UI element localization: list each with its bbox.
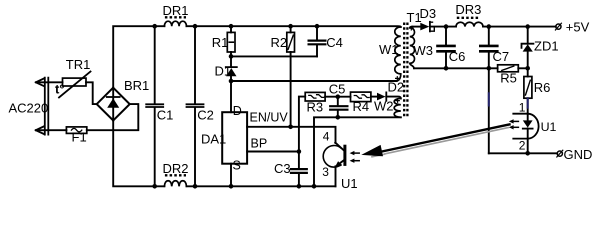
resistor R5 power mark <box>502 66 514 70</box>
svg-text:BR1: BR1 <box>124 78 149 93</box>
node D1 drain <box>229 79 234 84</box>
IC DA1 body <box>222 112 247 164</box>
node C1 top <box>152 24 157 29</box>
capacitor C7 plates <box>480 46 497 51</box>
svg-text:3: 3 <box>322 165 329 179</box>
diode D1 bar <box>226 66 237 68</box>
LED light arrow upper <box>513 120 519 122</box>
diode D2 bar <box>385 92 387 100</box>
svg-text:D: D <box>233 104 242 118</box>
node C7 top <box>487 24 492 29</box>
resistor R2 top lead <box>290 26 292 32</box>
svg-text:DR1: DR1 <box>163 3 189 18</box>
wire secondary return W3 to C7 <box>414 67 489 69</box>
resistor R5 left lead <box>489 67 498 69</box>
wire drain line D1 to W1 <box>231 80 396 82</box>
resistor R6 bottom lead <box>527 98 529 114</box>
svg-text:R2: R2 <box>271 35 288 50</box>
capacitor C1 bottom lead <box>154 108 156 186</box>
LED anode lead <box>527 114 529 121</box>
node C5 top <box>336 94 341 99</box>
optocoupler U1 LED housing top bar <box>513 113 527 115</box>
wire R3 to R4 <box>325 96 350 98</box>
coupling big arrow line <box>379 124 510 152</box>
svg-text:C1: C1 <box>157 107 174 122</box>
wire F1 to bridge right <box>87 104 139 130</box>
opto transistor base bar <box>343 146 346 164</box>
node C6 bottom <box>444 66 449 71</box>
wire S pin lead <box>230 164 232 187</box>
transformer T1 core dotted <box>404 23 407 119</box>
capacitor C3 top lead <box>298 152 300 168</box>
wire R3 left lead down to BP <box>299 97 305 152</box>
svg-text:DR2: DR2 <box>163 161 189 176</box>
wire D2 to W2 <box>386 97 401 99</box>
node C5 bottom <box>336 115 341 120</box>
opto light arrow lower <box>354 160 360 162</box>
resistor R1 top lead <box>230 26 232 32</box>
capacitor C4 bottom lead <box>316 46 318 57</box>
capacitor C3 bottom lead <box>298 174 300 186</box>
capacitor C4 plates <box>309 41 326 45</box>
node return rail <box>312 184 317 189</box>
LED triangle <box>523 120 533 127</box>
node S rail <box>229 184 234 189</box>
svg-text:D3: D3 <box>420 6 437 21</box>
node BP C3 <box>297 149 302 154</box>
transformer T1 winding W1 <box>395 27 401 81</box>
opto transistor circle <box>323 145 341 167</box>
svg-text:BP: BP <box>251 137 268 151</box>
node R2 top <box>288 24 293 29</box>
diode D3 schottky hooks <box>430 22 434 31</box>
diode D1 triangle <box>226 68 236 76</box>
resistor R3 power marks <box>309 95 324 98</box>
svg-text:GND: GND <box>564 147 593 162</box>
resistor R1 power mark <box>229 41 233 43</box>
terminal GND circle <box>557 151 562 156</box>
node C3 rail <box>297 184 302 189</box>
resistor R5 body <box>498 65 519 72</box>
node R2 enuv <box>288 125 293 130</box>
node LED gnd <box>525 151 530 156</box>
svg-text:U1: U1 <box>341 176 358 191</box>
winding W2 phase mark <box>396 99 399 102</box>
diode D1 bottom lead <box>230 76 232 81</box>
svg-text:C4: C4 <box>326 35 343 50</box>
coupling arrow shadow <box>372 128 508 157</box>
svg-text:DA1: DA1 <box>201 132 226 147</box>
wire bridge minus to bottom rail <box>113 121 164 187</box>
winding W2 humps <box>394 98 401 117</box>
opto transistor emitter lead <box>335 166 337 186</box>
thermistor TR1 body <box>63 78 87 86</box>
resistor R6 power mark <box>526 80 531 95</box>
resistor R5 right lead <box>518 67 527 69</box>
wire top rail to transformer <box>187 25 401 28</box>
wire AC bottom line <box>38 129 67 131</box>
resistor R2 bottom lead <box>290 52 292 127</box>
optocoupler U1 LED housing bottom bar <box>513 138 527 140</box>
svg-text:C7: C7 <box>493 49 510 64</box>
node C4 top <box>315 24 320 29</box>
wire W3 to D3 <box>413 26 421 28</box>
diode D3 bar <box>429 22 431 32</box>
svg-text:DR3: DR3 <box>455 2 481 17</box>
capacitor C1 top lead <box>154 26 156 103</box>
resistor R2 power mark <box>288 35 293 49</box>
terminal +5V slash <box>555 23 561 30</box>
svg-text:D1: D1 <box>215 64 232 79</box>
zener ZD1 top lead <box>527 27 529 44</box>
wire DR3 to +5V terminal <box>483 26 556 28</box>
wire C7 vertical to GND corner <box>488 27 490 154</box>
svg-text:EN/UV: EN/UV <box>250 111 289 125</box>
transformer T1 winding W3 <box>410 27 415 69</box>
svg-text:t°: t° <box>55 82 65 97</box>
svg-text:2: 2 <box>519 139 526 153</box>
node R1 clamp <box>229 54 234 59</box>
wire AC top line <box>38 81 63 83</box>
svg-text:S: S <box>233 159 241 173</box>
inductor DR1 core dotted <box>165 16 186 18</box>
terminal +5V circle <box>556 24 561 29</box>
LED cathode lead to GND <box>527 129 529 154</box>
connector plug double line <box>45 78 49 135</box>
capacitor C5 bottom lead <box>337 111 339 118</box>
svg-text:R3: R3 <box>307 100 324 115</box>
wire R4 to D2 <box>371 96 377 98</box>
resistor R2 body <box>287 32 295 52</box>
opto transistor emitter diagonal <box>338 160 344 165</box>
svg-text:ZD1: ZD1 <box>534 39 559 54</box>
inductor DR3 core dotted <box>457 17 480 19</box>
node ZD1 top <box>525 24 530 29</box>
capacitor C2 top lead <box>194 26 196 103</box>
svg-text:C6: C6 <box>449 49 466 64</box>
blue segment on R6 lead <box>527 98 529 107</box>
capacitor C5 top lead <box>337 97 339 105</box>
svg-text:W2: W2 <box>374 99 394 114</box>
wire bottom rail <box>187 185 336 187</box>
thermistor TR1 diagonal <box>59 72 91 98</box>
wire D pin lead <box>230 81 232 112</box>
svg-text:R5: R5 <box>500 71 517 86</box>
optocoupler U1 LED housing arc <box>528 114 539 139</box>
fuse F1 body <box>66 127 86 133</box>
AC input arrow top <box>36 79 44 87</box>
bridge BR1 inner diode <box>112 88 114 121</box>
terminal GND slash <box>557 150 563 157</box>
svg-text:+5V: +5V <box>566 19 590 34</box>
zener ZD1 bottom lead <box>527 52 529 69</box>
fuse F1 wave <box>71 128 81 131</box>
svg-text:AC220: AC220 <box>9 101 49 116</box>
node R1 top <box>229 24 234 29</box>
inductor DR2 core dotted <box>165 174 186 176</box>
capacitor C4 top lead <box>316 26 318 39</box>
capacitor C3 plates <box>291 169 307 173</box>
capacitor C1 plates <box>146 104 163 107</box>
capacitor C2 bottom lead <box>194 108 196 186</box>
coupling big arrow head <box>361 145 383 156</box>
svg-text:C5: C5 <box>329 82 346 97</box>
diode D2 triangle <box>377 93 386 101</box>
node C1 bottom <box>152 184 157 189</box>
opto transistor collector diagonal <box>335 143 344 151</box>
bridge BR1 diode bar <box>107 96 120 98</box>
diode D1 top lead <box>230 56 232 67</box>
svg-text:R1: R1 <box>212 35 229 50</box>
resistor R1 bottom lead <box>230 52 232 56</box>
blue segment on C7 ground wire <box>488 93 490 105</box>
svg-text:U1: U1 <box>541 120 557 134</box>
inductor DR1 humps <box>164 21 186 26</box>
svg-text:R6: R6 <box>534 80 551 95</box>
svg-text:TR1: TR1 <box>66 57 91 72</box>
opto light arrow upper <box>354 152 360 154</box>
svg-text:4: 4 <box>323 129 330 143</box>
bridge BR1 diode triangle <box>107 98 119 107</box>
svg-text:W1: W1 <box>379 42 399 57</box>
opto transistor emitter arrow <box>335 161 342 167</box>
node C6 top <box>444 24 449 29</box>
inductor DR2 humps <box>164 181 186 187</box>
svg-text:C3: C3 <box>274 161 291 176</box>
svg-text:1: 1 <box>519 101 526 115</box>
winding W1 phase mark <box>396 77 399 80</box>
capacitor C5 plates <box>330 106 347 110</box>
winding W3 phase mark <box>410 27 413 30</box>
svg-text:R4: R4 <box>353 99 370 114</box>
resistor R6 body <box>524 77 532 99</box>
node C2 top <box>193 24 198 29</box>
resistor R4 body <box>351 92 371 102</box>
capacitor C6 plates <box>438 46 455 51</box>
node C7 return <box>487 66 492 71</box>
wire bridge plus to top rail <box>113 26 164 87</box>
zener ZD1 triangle <box>523 44 533 51</box>
capacitor C6 top lead <box>445 27 447 45</box>
svg-text:F1: F1 <box>72 130 87 145</box>
wire BP line <box>247 151 299 153</box>
svg-text:C2: C2 <box>197 107 214 122</box>
inductor DR3 humps <box>456 22 483 26</box>
LED cathode bar <box>523 128 533 130</box>
svg-text:D2: D2 <box>388 80 405 95</box>
diode D3 triangle <box>420 23 429 31</box>
svg-text:W3: W3 <box>414 43 434 58</box>
resistor R6 top lead <box>527 68 529 76</box>
wire W2 bottom return line <box>314 117 401 186</box>
wire EN/UV line to opto collector <box>247 127 335 143</box>
resistor R3 body <box>305 92 325 101</box>
resistor R4 power marks <box>354 95 369 98</box>
bridge rectifier BR1 diamond <box>97 88 130 121</box>
wire GND line <box>489 152 557 154</box>
zener ZD1 bar and hook <box>522 44 534 48</box>
wire D3 to DR3 <box>430 26 456 28</box>
capacitor C6 bottom lead <box>445 53 447 69</box>
wire TR1 to bridge left <box>86 82 97 104</box>
node C2 bottom <box>193 184 198 189</box>
capacitor C2 plates <box>187 104 204 107</box>
node R5 right <box>525 66 530 71</box>
wire clamp line R1 to C4 <box>231 55 317 57</box>
LED light arrow lower <box>513 126 519 128</box>
AC input arrow bottom <box>36 126 44 134</box>
resistor R1 body <box>227 32 235 52</box>
